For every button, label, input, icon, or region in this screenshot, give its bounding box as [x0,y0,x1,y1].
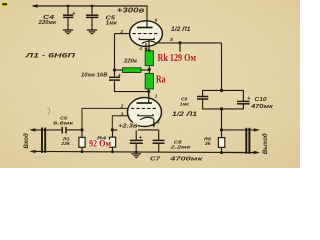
svg-text:C10: C10 [255,97,267,103]
svg-text:+: + [139,135,142,141]
svg-text:6: 6 [155,17,158,22]
svg-text:2.2мк: 2.2мк [169,145,191,151]
svg-text:3: 3 [121,111,124,116]
svg-text:Выход: Выход [261,133,269,154]
svg-text:220к: 220к [123,59,137,65]
svg-text:Л1 - 6Н6П: Л1 - 6Н6П [24,53,76,59]
svg-text:+: + [247,96,250,102]
svg-text:5: 5 [157,120,160,125]
svg-text:2: 2 [120,29,124,34]
svg-text:220мк: 220мк [37,20,56,26]
svg-text:4700мк: 4700мк [169,157,203,163]
svg-text:+300в: +300в [117,7,146,14]
svg-text:1: 1 [155,93,158,98]
svg-text:6.6мк: 6.6мк [53,121,74,127]
svg-text:470мк: 470мк [250,104,274,110]
svg-text:3k: 3k [205,141,212,146]
svg-text:1мк: 1мк [106,20,117,26]
svg-text:C8: C8 [174,139,182,145]
svg-text:1/2 Л1: 1/2 Л1 [172,111,198,118]
svg-text:1/2 Л1: 1/2 Л1 [171,27,191,33]
svg-text:+: + [118,73,121,79]
svg-text:Ra: Ra [156,74,166,85]
svg-text:8: 8 [170,37,173,42]
svg-text:22k: 22k [60,141,70,146]
svg-text:Rk 129 Ом: Rk 129 Ом [158,53,197,64]
svg-text:+: + [72,11,75,17]
svg-text:C7: C7 [150,157,161,163]
svg-text:4: 4 [138,46,142,51]
svg-text:10мк 16В: 10мк 16В [81,72,108,78]
svg-text:Вход: Вход [24,133,30,149]
svg-text:2: 2 [120,104,124,109]
svg-text:92 Ом: 92 Ом [89,138,111,148]
svg-text:1мк: 1мк [180,101,190,106]
svg-text:+2.3в: +2.3в [118,124,138,130]
